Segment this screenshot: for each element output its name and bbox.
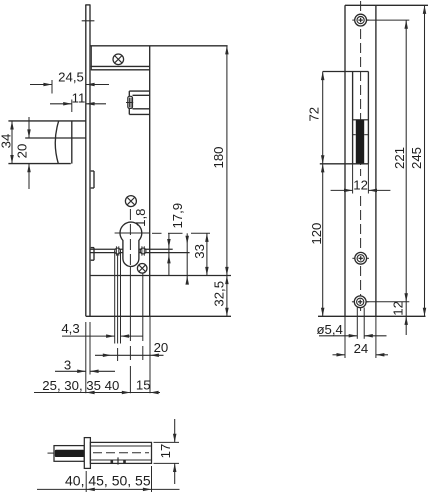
bottom hole hidden edges (dia 5,4) [356, 308, 358, 339]
fixing screws on bar [115, 246, 121, 255]
svg-text:221: 221 [392, 147, 407, 169]
bottom view case [90, 442, 151, 463]
svg-text:4,3: 4,3 [61, 321, 79, 336]
case lower front edge [90, 275, 231, 277]
svg-text:20: 20 [154, 340, 169, 355]
svg-text:3: 3 [64, 357, 71, 372]
latch cutout [352, 72, 354, 164]
bottom view latch bolt black fill [55, 450, 85, 457]
svg-text:12: 12 [390, 301, 405, 316]
screw symbol (lower) circle with X [137, 264, 147, 274]
svg-text:120: 120 [309, 223, 324, 245]
screw symbol (middle) circle with X [125, 196, 136, 207]
screw hole middle [352, 252, 369, 264]
guide tab on faceplate (at fixing bar) [93, 248, 95, 261]
svg-text:15: 15 [136, 378, 151, 393]
case edge extension below [149, 316, 151, 393]
svg-text:32,5: 32,5 [211, 281, 226, 307]
case top band [91, 65, 150, 67]
screw symbol (top) circle with X [113, 54, 124, 65]
svg-text:ø5,4: ø5,4 [317, 322, 343, 337]
bottom view latch bolt outline [54, 446, 84, 462]
baseline (case bottom, shared extension) [86, 315, 231, 317]
latch unit block inside case [129, 90, 149, 92]
cylinder fixing bar [90, 248, 173, 250]
svg-text:17: 17 [158, 444, 173, 459]
right fixing screw hidden line [142, 270, 144, 341]
bottom view faceplate bar [84, 438, 90, 469]
svg-text:24: 24 [354, 341, 369, 356]
svg-text:180: 180 [211, 146, 226, 168]
latch bolt in cutout (black) [353, 119, 369, 121]
latch bolt protruding left [8, 120, 85, 122]
guide tab on faceplate [93, 171, 95, 188]
svg-text:72: 72 [306, 107, 321, 122]
svg-text:245: 245 [409, 147, 424, 169]
cylinder horizontal centre line [115, 232, 150, 234]
europrofile cylinder hole [120, 222, 142, 266]
centre line extension (dashed) to 33/17,9 dims [152, 232, 162, 234]
svg-text:12: 12 [353, 177, 368, 192]
svg-text:24,5: 24,5 [58, 70, 84, 85]
svg-text:20: 20 [15, 144, 30, 159]
faceplate plate outline (right view) [344, 5, 346, 316]
svg-text:1,8: 1,8 [133, 209, 148, 227]
bottom view centre line left stub [48, 452, 55, 454]
screw channel hidden lines [114, 251, 116, 344]
lock case outline [90, 45, 228, 47]
faceplate extension lines below [85, 322, 87, 393]
extension from bottom screw to 12 dim [366, 301, 409, 303]
faceplate top tick mark [82, 20, 95, 22]
screw hole top [352, 14, 369, 26]
latch spring capsule [128, 96, 133, 108]
screw hole bottom [352, 296, 369, 308]
plate edge extensions below (24 dim) [344, 316, 346, 358]
bottom view screw channel marks [117, 457, 119, 464]
case front left edge (top) [90, 46, 92, 70]
bottom view centre line [93, 452, 149, 454]
svg-text:40, 45, 50, 55: 40, 45, 50, 55 [65, 473, 151, 489]
faceplate (left view, vertical strip) [85, 5, 87, 316]
extension from top screw to 221 dim [367, 19, 410, 21]
plate centre line (dashed) [360, 1, 362, 176]
cylinder vertical centre line [129, 209, 131, 267]
baseline right (plate bottom + extensions) [318, 315, 426, 317]
svg-text:11: 11 [72, 90, 86, 105]
svg-text:17,9: 17,9 [170, 203, 185, 229]
svg-text:33: 33 [192, 244, 207, 259]
svg-text:25, 30, 35 40: 25, 30, 35 40 [42, 378, 119, 393]
